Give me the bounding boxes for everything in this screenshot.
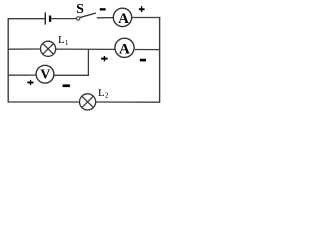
switch S pivot xyxy=(77,17,80,20)
svg-text:S: S xyxy=(76,2,84,17)
wire second rail left xyxy=(8,48,41,50)
wire bottom rail left xyxy=(8,101,80,103)
label minus (right of A2) xyxy=(140,59,146,62)
lamp L2 xyxy=(80,94,96,110)
svg-text:2: 2 xyxy=(105,90,109,99)
svg-text:A: A xyxy=(118,11,129,27)
wire battery to switch pivot xyxy=(51,18,76,20)
switch S blade (open) xyxy=(80,13,96,18)
wire left rail xyxy=(7,19,9,103)
label plus (left of A2) xyxy=(101,58,107,60)
voltmeter V xyxy=(36,65,54,83)
label minus (right of V) xyxy=(63,84,70,87)
wire A1 to top-right corner xyxy=(132,17,161,19)
wire right rail xyxy=(159,17,161,102)
svg-text:V: V xyxy=(40,68,50,83)
wire switch to ammeter A1 xyxy=(97,17,114,19)
battery cell short thick plate xyxy=(49,16,51,22)
ammeter A2 xyxy=(115,38,134,57)
lamp L1 xyxy=(41,41,56,56)
ammeter A1 xyxy=(113,8,131,26)
label minus (top, left of A1) xyxy=(100,8,106,10)
wire vertical connector (node to voltmeter) xyxy=(87,49,89,75)
wire A2 to right rail xyxy=(135,49,160,51)
label plus (left of V) xyxy=(27,82,33,84)
wire top rail segment battery-left xyxy=(8,18,45,20)
wire lamp L1 to ammeter A2 xyxy=(56,48,116,50)
svg-text:1: 1 xyxy=(65,38,69,47)
wire V to vertical connector xyxy=(54,74,89,76)
label plus (top, right of A1) xyxy=(139,8,145,10)
wire voltmeter rail left xyxy=(8,74,37,76)
wire bottom rail right xyxy=(96,101,161,103)
svg-text:A: A xyxy=(119,41,130,57)
battery cell long plate xyxy=(44,12,46,24)
